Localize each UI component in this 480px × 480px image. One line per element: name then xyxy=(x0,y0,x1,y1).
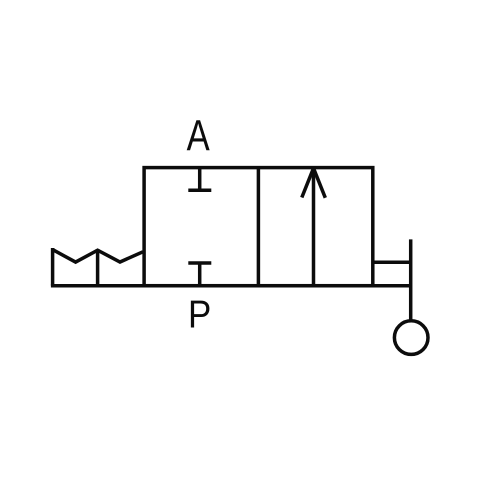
blocked port P: stem xyxy=(198,263,202,286)
blocked port P: crossbar xyxy=(188,261,211,265)
valve body (two squares) xyxy=(144,168,373,286)
lever ball knob xyxy=(394,321,428,355)
detent left vertical xyxy=(51,248,55,286)
divider between squares xyxy=(257,168,261,286)
flow arrow shaft xyxy=(312,169,316,286)
flow arrow left wing xyxy=(302,168,314,197)
detent zigzag xyxy=(53,250,143,263)
svg-text:A: A xyxy=(187,113,211,160)
svg-text:P: P xyxy=(188,291,211,335)
lever connector xyxy=(373,261,411,265)
blocked port A: stem xyxy=(198,168,202,191)
lever rod xyxy=(409,239,413,319)
wire: baseline P-line xyxy=(51,284,411,288)
blocked port A: crossbar xyxy=(188,188,211,192)
flow arrow right wing xyxy=(314,168,326,198)
detent middle vertical xyxy=(96,249,100,286)
